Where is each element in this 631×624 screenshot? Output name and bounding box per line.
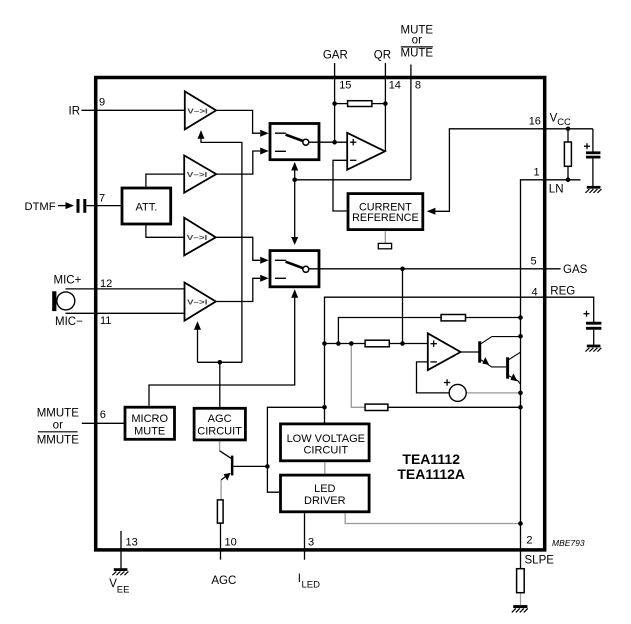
- wire Q1 collector: [481, 337, 521, 344]
- transistor Q3 emitter lead: [220, 451, 231, 459]
- wire pin7 DTMF lead: [58, 205, 67, 207]
- svg-text:or: or: [412, 35, 422, 47]
- wire pin4 REG line: [325, 297, 544, 422]
- svg-text:SLPE: SLPE: [525, 555, 555, 567]
- svg-text:ATT.: ATT.: [136, 201, 158, 213]
- wire top feedback resistor line: [338, 318, 441, 344]
- wire feedback T4: [197, 323, 199, 363]
- svg-text:V–>I: V–>I: [187, 233, 208, 242]
- op-amp U5 plus minus signs: [350, 139, 356, 160]
- transistor Q3 collector lead with arrow: [221, 473, 230, 480]
- op-amp U5 receiving amplifier: [347, 133, 385, 170]
- arrow down into switch2 top: [291, 237, 298, 245]
- IC outline TEA1112: [96, 78, 545, 550]
- resistor R-GAR (between GAR and QR): [348, 101, 372, 107]
- svg-text:I: I: [298, 573, 301, 585]
- ground symbol REG cap: [585, 346, 601, 352]
- wire pin10 AGC stub: [220, 524, 222, 560]
- block LOW VOLTAGE CIRCUIT: [281, 424, 370, 461]
- wire V-I amp2 output to switch1: [216, 151, 260, 174]
- block MICRO MUTE: [125, 407, 175, 439]
- svg-text:CC: CC: [557, 117, 571, 128]
- transistor Q2 emitter arrow: [510, 373, 517, 381]
- svg-text:12: 12: [100, 278, 112, 290]
- transistor Q3 base bar (AGC): [231, 456, 234, 476]
- resistor R3 (to LN vertical): [365, 404, 388, 410]
- svg-text:MIC−: MIC−: [55, 316, 83, 328]
- arrow into switch1 lower input: [260, 148, 269, 155]
- svg-text:8: 8: [415, 79, 421, 91]
- op-amp U6 plus minus signs: [431, 341, 437, 362]
- wire feedback T1: [201, 132, 242, 363]
- wire VCC cap to ground: [592, 158, 594, 186]
- transistor Q2 base bar: [506, 357, 509, 378]
- svg-text:V–>I: V–>I: [187, 170, 208, 179]
- svg-text:6: 6: [100, 409, 106, 421]
- svg-text:4: 4: [532, 286, 538, 298]
- wire switch1 output to op-amp: [309, 141, 347, 143]
- svg-text:AGC: AGC: [211, 575, 236, 587]
- wire op-amp2 output to Q1 base: [461, 351, 479, 353]
- svg-text:GAR: GAR: [323, 50, 348, 62]
- overline for MUTE: [401, 46, 433, 48]
- wire AGC box to Q3 emitter stem: [219, 441, 221, 451]
- wire switch control between switches: [294, 163, 296, 239]
- svg-text:V–>I: V–>I: [187, 106, 208, 115]
- wire bus to AGC circuit: [219, 362, 221, 407]
- svg-text:LED: LED: [302, 580, 321, 591]
- svg-text:7: 7: [99, 193, 105, 205]
- wire pin11 MIC-: [66, 312, 185, 314]
- wire pin15 GAR vertical: [334, 63, 336, 142]
- capacitor C-DTMF coupling: [78, 199, 85, 213]
- wire current source to LN vertical: [466, 392, 520, 394]
- wire mute control horizontal: [295, 179, 411, 181]
- svg-text:MUTE: MUTE: [401, 47, 434, 59]
- wire REG ext cap: [543, 297, 594, 322]
- switch S2 box: [270, 251, 319, 287]
- wire plus node to R3: [351, 344, 365, 408]
- wire LED driver output to SLPE: [345, 513, 520, 523]
- svg-text:10: 10: [225, 537, 237, 549]
- wire pin5 GAS line: [309, 268, 561, 270]
- wire op-amp1 minus to current reference: [333, 160, 347, 211]
- wire Q3 base to node: [234, 465, 268, 467]
- switch S1 box: [270, 124, 319, 160]
- arrow into switch2 upper input: [260, 257, 269, 264]
- block AGC CIRCUIT: [194, 408, 245, 440]
- wire Q2 emitter: [509, 376, 521, 384]
- svg-text:2: 2: [526, 535, 532, 547]
- wire GAR resistor leads: [335, 103, 348, 105]
- svg-text:GAS: GAS: [563, 264, 588, 276]
- wire ATT to V-I amp3: [146, 225, 184, 237]
- resistor R-SLPE external: [517, 569, 525, 593]
- svg-text:MUTE: MUTE: [134, 426, 165, 438]
- ground symbol SLPE: [512, 607, 528, 613]
- wire pin16 VCC line: [428, 129, 593, 212]
- svg-text:LED: LED: [314, 483, 335, 495]
- op-amp U4 V-I converter (MIC): [185, 283, 216, 321]
- wire pin1 LN line: [521, 180, 581, 552]
- wire pin3 ILED stub: [304, 513, 306, 560]
- arrow into switch1 upper input: [260, 130, 269, 137]
- svg-text:TEA1112A: TEA1112A: [397, 466, 465, 482]
- wire pin14 QR vertical: [384, 63, 386, 151]
- arrow DTMF input: [66, 202, 75, 209]
- ground symbol VEE: [112, 570, 128, 576]
- wire Q3 collector to resistor: [220, 480, 222, 500]
- wire GAS to plus node: [402, 269, 404, 344]
- wire pin8 MUTE vertical: [410, 65, 412, 180]
- wire pin9 IR input: [82, 109, 185, 111]
- svg-text:DTMF: DTMF: [25, 201, 56, 213]
- arrow into switch2 lower input: [260, 275, 269, 282]
- svg-text:REFERENCE: REFERENCE: [352, 212, 419, 224]
- reference terminal box under current reference: [378, 243, 391, 248]
- wire pin12 MIC+: [66, 288, 185, 290]
- wire op-amp2 plus input line: [325, 343, 366, 345]
- wire pin6 MMUTE to MICRO MUTE: [82, 422, 124, 424]
- op-amp U1 V-I converter (IR): [185, 91, 216, 129]
- wire current reference ground stem: [384, 231, 386, 243]
- svg-text:LN: LN: [549, 184, 564, 196]
- wire REG to LED driver branch: [267, 407, 324, 492]
- op-amp U6 line driver: [428, 333, 461, 370]
- svg-text:TEA1112: TEA1112: [402, 451, 460, 467]
- wire R3 to LN vertical: [388, 406, 521, 408]
- block LED DRIVER: [281, 475, 370, 512]
- svg-text:CIRCUIT: CIRCUIT: [303, 445, 348, 457]
- svg-text:DRIVER: DRIVER: [304, 495, 346, 507]
- svg-text:15: 15: [339, 79, 351, 91]
- wire VCC ext resistor leads: [567, 129, 569, 142]
- svg-text:V–>I: V–>I: [187, 297, 208, 306]
- svg-text:9: 9: [99, 97, 105, 109]
- capacitor C-REG external electrolytic: [584, 311, 602, 329]
- overline for MMUTE: [38, 431, 78, 433]
- wire VCC cap lead down: [592, 129, 594, 152]
- block CURRENT REFERENCE: [348, 194, 423, 230]
- transistor Q1 emitter arrow: [482, 357, 489, 365]
- svg-text:MMUTE: MMUTE: [37, 434, 79, 446]
- wire pin2 SLPE below box: [520, 552, 522, 568]
- wire pin7 DTMF to ATT: [87, 205, 122, 207]
- current source circle: [449, 384, 466, 401]
- wire feedback bus: [198, 361, 242, 363]
- svg-text:3: 3: [308, 537, 314, 549]
- op-amp U2 V-I converter (DTMF high): [184, 155, 216, 192]
- transistor Q1 base bar: [478, 341, 481, 362]
- microphone symbol: [52, 291, 75, 311]
- svg-text:MICRO: MICRO: [131, 413, 168, 425]
- svg-text:13: 13: [126, 537, 138, 549]
- resistor R-VCC external: [564, 142, 571, 166]
- arrow up into switch1 bottom: [291, 162, 298, 171]
- switch S1 contacts and lever: [275, 133, 309, 151]
- wire ATT to V-I amp2: [146, 174, 184, 187]
- block ATT. attenuator: [122, 188, 171, 224]
- resistor R-AGC (pin 10): [217, 500, 223, 523]
- wire V-I amp1 output to switch1: [216, 110, 260, 133]
- svg-text:11: 11: [100, 315, 111, 327]
- svg-text:EE: EE: [117, 585, 130, 596]
- svg-text:MIC+: MIC+: [54, 274, 82, 286]
- svg-text:or: or: [53, 420, 63, 432]
- svg-text:5: 5: [531, 256, 537, 268]
- ground symbol VCC cap: [585, 187, 601, 193]
- wire op-amp2 minus to current source: [417, 362, 450, 393]
- wire Q1 emitter to Q2 base: [481, 360, 506, 367]
- wire micro mute to switch2: [149, 291, 295, 406]
- svg-text:14: 14: [389, 79, 401, 91]
- arrow up into V-I amp4 feedback: [194, 321, 201, 330]
- wire low voltage to LED driver stem: [324, 462, 326, 474]
- svg-text:IR: IR: [69, 105, 81, 117]
- svg-text:MBE793: MBE793: [552, 538, 585, 548]
- capacitor C-VCC external electrolytic: [584, 143, 600, 157]
- svg-text:AGC: AGC: [208, 413, 232, 425]
- svg-text:QR: QR: [374, 50, 391, 62]
- wire V-I amp4 output to switch2: [216, 278, 260, 301]
- wire pin13 VEE stub: [120, 531, 122, 568]
- switch S2 contacts and lever: [275, 260, 309, 278]
- resistor R-top (feedback, y318): [441, 315, 465, 321]
- svg-text:MMUTE: MMUTE: [37, 408, 79, 420]
- resistor R-plus (op-amp2 + input): [365, 340, 389, 347]
- current source plus sign: [444, 379, 450, 385]
- arrow up into V-I amp1 feedback: [198, 130, 205, 139]
- svg-text:1: 1: [534, 166, 540, 178]
- svg-text:LOW VOLTAGE: LOW VOLTAGE: [287, 433, 365, 445]
- arrow up into switch2 bottom: [291, 289, 298, 298]
- svg-text:16: 16: [529, 116, 541, 128]
- wire V-I amp3 output to switch2: [216, 237, 260, 260]
- svg-text:REG: REG: [550, 285, 575, 297]
- wire Q2 collector: [509, 352, 520, 359]
- wire SLPE resistor to ground: [520, 593, 522, 605]
- arrow left into current reference: [427, 208, 436, 215]
- svg-text:CIRCUIT: CIRCUIT: [197, 426, 242, 438]
- op-amp U3 V-I converter (DTMF low): [184, 218, 216, 256]
